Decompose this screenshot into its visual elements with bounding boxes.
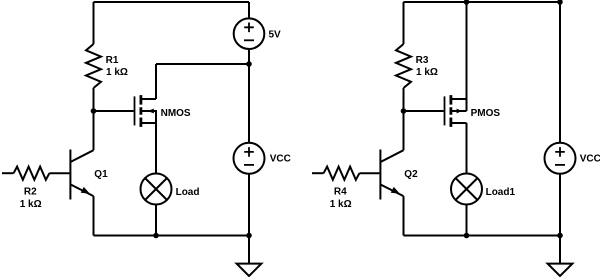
transistor Q2 emitter diagonal: [380, 184, 403, 196]
voltage source VCC left plus sign: [244, 147, 254, 157]
wire R3 top lead: [403, 2, 405, 44]
lamp Load1 circle: [451, 174, 482, 205]
wire R1 bottom lead: [93, 88, 95, 111]
svg-text:R1: R1: [106, 55, 119, 66]
wire collector vertical right: [403, 111, 405, 150]
transistor NMOS body line: [141, 111, 156, 123]
wire bottom rail left circuit: [94, 235, 250, 237]
resistor R3: [396, 44, 411, 88]
voltage source VCC right circle: [545, 143, 576, 174]
wire 5V source top lead: [248, 2, 250, 19]
voltage source VCC right minus sign: [555, 164, 565, 166]
transistor PMOS source stub top: [451, 98, 467, 100]
transistor Q2 emitter arrow: [391, 187, 400, 194]
resistor R4: [324, 167, 360, 180]
voltage source VCC left circle: [234, 143, 265, 174]
wire PMOS gate lead: [404, 110, 444, 112]
svg-text:1 kΩ: 1 kΩ: [20, 199, 42, 210]
transistor PMOS body arrow: [457, 109, 462, 114]
node junction lamp1/bottom rail: [464, 233, 470, 239]
resistor R1: [86, 44, 101, 88]
node junction R1/gate/collector: [91, 108, 97, 114]
wire PMOS source up to rail: [466, 2, 468, 111]
wire emitter vertical right: [403, 196, 405, 235]
transistor Q2 collector diagonal: [380, 150, 403, 162]
wire node to VCC top: [248, 64, 250, 143]
svg-text:R2: R2: [24, 187, 37, 198]
wire lamp1 bottom lead: [466, 205, 468, 236]
ground right: [548, 264, 573, 276]
lamp Load1 X: [456, 178, 478, 200]
transistor PMOS body line: [451, 110, 467, 112]
ground left: [237, 264, 262, 276]
svg-text:VCC: VCC: [580, 154, 600, 165]
svg-text:5V: 5V: [269, 29, 282, 40]
transistor Q1 emitter diagonal: [70, 184, 93, 196]
node junction PMOS/top rail: [464, 0, 470, 5]
wire R2 left lead: [2, 172, 14, 174]
wire lamp bottom lead: [155, 205, 157, 236]
wire NMOS source down to lamp: [155, 123, 157, 174]
transistor Q1 emitter arrow: [81, 187, 90, 194]
wire VCC right bottom lead: [559, 174, 561, 236]
wire PMOS drain down to lamp: [466, 123, 468, 174]
svg-text:Q2: Q2: [404, 169, 418, 180]
transistor PMOS channel segments: [449, 95, 452, 127]
svg-text:Load: Load: [176, 187, 200, 198]
wire bottom rail right circuit: [404, 235, 561, 237]
svg-text:Q1: Q1: [94, 169, 108, 180]
wire R1 top lead: [93, 2, 95, 44]
voltage source VCC right plus sign: [555, 147, 565, 157]
wire top rail left circuit: [94, 1, 250, 3]
wire VCC bottom lead: [248, 174, 250, 236]
wire emitter vertical: [93, 196, 95, 235]
wire Q2 base lead: [359, 172, 379, 174]
transistor Q1 base bar: [69, 150, 71, 200]
svg-text:R4: R4: [334, 187, 347, 198]
wire 5V source bottom lead: [248, 49, 250, 64]
wire to ground right: [559, 236, 561, 264]
node junction below 5V: [246, 61, 252, 67]
svg-text:1 kΩ: 1 kΩ: [106, 67, 128, 78]
wire drain to 5V node: [156, 63, 249, 65]
svg-text:1 kΩ: 1 kΩ: [416, 67, 438, 78]
node junction bottom rail/VCC: [246, 233, 252, 239]
node junction R3/gate/collector: [401, 108, 407, 114]
transistor Q1 collector diagonal: [70, 150, 93, 162]
wire VCC right top lead: [559, 2, 561, 143]
transistor PMOS drain stub bottom: [451, 122, 467, 124]
resistor R2: [14, 167, 50, 180]
transistor NMOS channel segments: [139, 95, 142, 127]
voltage source V1 5V circle: [234, 18, 265, 49]
wire NMOS gate lead: [94, 110, 134, 112]
transistor Q2 base bar: [379, 150, 381, 200]
wire Q1 base lead: [49, 172, 69, 174]
node junction bottom rail/VCC right: [557, 233, 563, 239]
voltage source V1 plus sign: [244, 23, 254, 33]
svg-text:PMOS: PMOS: [471, 108, 501, 119]
wire R4 left lead: [312, 172, 324, 174]
transistor PMOS gate bar: [444, 96, 446, 125]
svg-text:NMOS: NMOS: [161, 108, 191, 119]
transistor NMOS drain stub: [141, 98, 156, 100]
transistor NMOS source stub: [141, 122, 156, 124]
voltage source VCC left minus sign: [244, 164, 254, 166]
lamp Load X: [145, 178, 167, 200]
wire top rail right circuit: [404, 1, 561, 3]
wire R3 bottom lead: [403, 88, 405, 111]
node junction top rail/VCC right: [557, 0, 563, 5]
wire NMOS drain up: [155, 64, 157, 99]
svg-text:R3: R3: [416, 55, 429, 66]
wire to ground left: [248, 236, 250, 264]
lamp Load circle: [141, 174, 172, 205]
svg-text:1 kΩ: 1 kΩ: [330, 199, 352, 210]
node junction lamp/bottom rail: [153, 233, 159, 239]
wire collector vertical: [93, 111, 95, 150]
transistor NMOS gate bar: [134, 96, 136, 125]
svg-text:Load1: Load1: [486, 187, 516, 198]
svg-text:VCC: VCC: [270, 154, 291, 165]
transistor NMOS body arrow: [147, 109, 154, 114]
voltage source V1 minus sign: [244, 39, 254, 41]
